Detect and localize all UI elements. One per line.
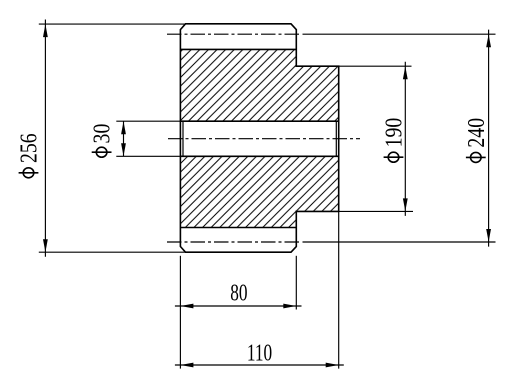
svg-text:240: 240 [462, 118, 489, 148]
svg-text:110: 110 [247, 339, 272, 367]
svg-text:256: 256 [15, 133, 42, 163]
svg-text:80: 80 [230, 279, 247, 307]
svg-text:30: 30 [88, 124, 115, 144]
svg-text:190: 190 [380, 118, 407, 148]
